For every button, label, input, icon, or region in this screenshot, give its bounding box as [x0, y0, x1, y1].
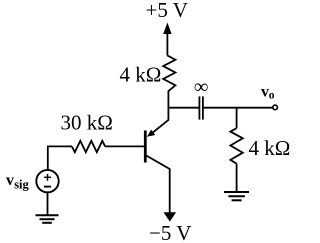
svg-text:+5 V: +5 V [146, 0, 188, 22]
svg-text:4 kΩ: 4 kΩ [120, 63, 162, 87]
svg-text:o: o [269, 90, 275, 102]
svg-text:v: v [6, 172, 14, 189]
svg-text:sig: sig [14, 178, 29, 192]
svg-text:−5 V: −5 V [149, 221, 191, 243]
svg-text:∞: ∞ [194, 76, 208, 98]
svg-text:30 kΩ: 30 kΩ [61, 111, 113, 135]
svg-text:4 kΩ: 4 kΩ [249, 136, 291, 160]
svg-text:v: v [261, 84, 269, 101]
